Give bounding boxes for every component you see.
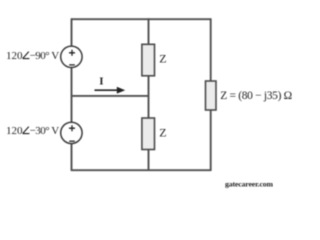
- svg-text:120: 120: [6, 50, 23, 62]
- svg-text:Z: Z: [159, 126, 166, 140]
- svg-text:120: 120: [6, 125, 23, 137]
- svg-text:−90° V: −90° V: [30, 50, 60, 62]
- svg-text:Z: Z: [159, 52, 166, 66]
- svg-text:−30° V: −30° V: [30, 125, 60, 137]
- svg-text:I: I: [99, 76, 103, 88]
- svg-text:Z = (80 − j35) Ω: Z = (80 − j35) Ω: [220, 90, 292, 102]
- svg-text:gatecareer.com: gatecareer.com: [225, 179, 274, 188]
